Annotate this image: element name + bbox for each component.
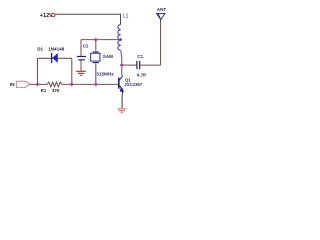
wire feedback line y40 from C2 corner to L1 tap [81,39,119,41]
wire L1 bottom to collector node [121,50,122,75]
svg-text:IN: IN [10,82,15,88]
svg-text:4.7P: 4.7P [137,72,146,77]
svg-text:D1: D1 [37,47,43,52]
wire D1 row [38,57,72,59]
junction dot at L1 tap [119,38,123,42]
svg-text:C1: C1 [137,54,143,59]
svg-text:C2: C2 [83,44,89,49]
svg-text:315MHz: 315MHz [96,71,114,76]
resistor R1 zigzag [47,82,62,87]
connector IN pentagon symbol [16,81,30,87]
ground below Q1 emitter [117,109,126,113]
svg-text:+12V: +12V [40,13,53,19]
ground below C2 [76,71,86,75]
SAW resonator box [91,53,100,61]
wire +12V rail horizontal [55,13,121,15]
svg-text:ANT: ANT [157,7,167,12]
junction dot at SAW top [94,38,98,42]
junction dot at IN node [35,82,39,86]
diode D1 triangle [52,53,58,63]
junction dot at D1 right bottom [70,82,74,86]
svg-text:SAW: SAW [103,54,114,59]
inductor L1 coil [118,24,121,50]
transistor Q1 collector stroke [119,76,123,81]
wire emitter down [121,90,124,108]
SAW resonator bottom plate [93,62,99,64]
wire rail corner down to L1 [120,14,122,25]
capacitor C2 plates [77,57,86,60]
node +12V terminal circle [52,13,55,16]
wire SAW bottom stem to base row [95,63,97,84]
svg-text:47K: 47K [52,88,60,93]
junction dot at collector C1 node [120,63,124,67]
wire C2 top stem [80,40,82,57]
wire collector node to C1 [122,64,137,66]
svg-text:L1: L1 [123,13,129,19]
capacitor C1 plates [137,61,140,69]
svg-text:R1: R1 [41,88,47,93]
svg-text:2SC2357: 2SC2357 [125,82,143,87]
wire C1 to antenna corner [140,20,160,65]
SAW resonator top plate [93,51,99,53]
diode D1 cathode bar [51,53,53,63]
wire R1 to Q1 base [62,83,119,85]
wire C2 to ground [80,60,82,70]
transistor Q1 emitter arrow [120,87,124,92]
transistor Q1 emitter stroke [119,85,123,90]
antenna triangle symbol [157,13,166,19]
wire D1 loop right vertical [71,58,73,84]
wire D1 loop left vertical [37,58,39,84]
svg-text:1N4148: 1N4148 [48,47,65,52]
transistor Q1 base bar [118,78,120,89]
wire IN to base row start [30,83,47,85]
junction dot at SAW bottom [94,82,98,86]
wire SAW top stem [95,40,97,52]
